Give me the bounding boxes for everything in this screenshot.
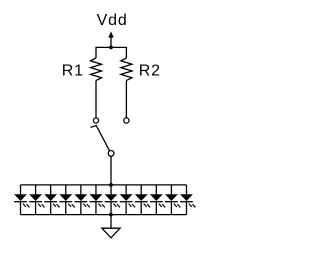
svg-text:R2: R2: [139, 63, 161, 80]
svg-text:R1: R1: [62, 63, 84, 80]
svg-text:Vdd: Vdd: [97, 12, 128, 29]
